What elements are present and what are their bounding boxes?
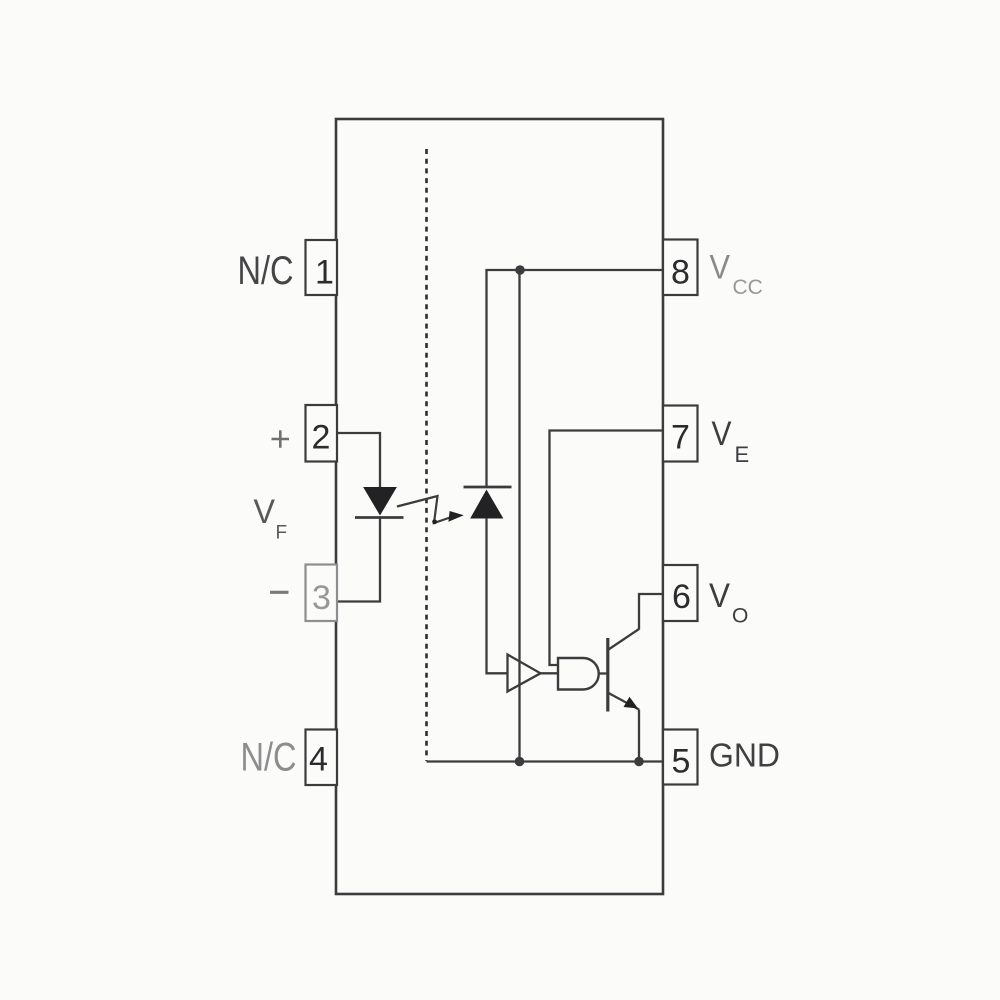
wire amplifier output to AND gate xyxy=(541,672,559,674)
svg-text:CC: CC xyxy=(733,276,763,299)
svg-text:5: 5 xyxy=(672,743,691,781)
amplifier buffer A1 xyxy=(508,655,541,692)
wire VCC rail pin8 xyxy=(487,270,664,487)
label N/C pin 1 xyxy=(238,249,294,293)
label + anode xyxy=(272,430,290,447)
svg-text:8: 8 xyxy=(671,254,690,292)
light emission arrow xyxy=(397,496,464,524)
svg-text:V: V xyxy=(254,493,276,531)
label VCC xyxy=(710,248,763,299)
LED D1 xyxy=(355,488,404,518)
label VF xyxy=(254,493,288,544)
svg-text:1: 1 xyxy=(315,254,334,292)
svg-text:V: V xyxy=(712,415,732,453)
transistor Q1 xyxy=(608,629,639,712)
IC body U1 xyxy=(336,119,663,894)
ground rail wire pin5 xyxy=(427,760,664,762)
label VE xyxy=(712,415,750,467)
label N/C pin 4 xyxy=(241,736,297,780)
pin 3 xyxy=(306,565,338,622)
wire emitter to ground rail xyxy=(638,710,640,762)
pin 8 xyxy=(663,240,698,296)
wire internal supply line xyxy=(518,270,520,762)
pin 1 xyxy=(306,240,338,295)
svg-text:3: 3 xyxy=(312,579,331,617)
pin 5 xyxy=(663,730,698,785)
wire pin6 VO to collector xyxy=(639,594,663,630)
AND gate G1 xyxy=(558,658,599,690)
pin 7 xyxy=(663,406,698,462)
node ground junction right xyxy=(634,757,644,767)
wire pin2 to LED anode xyxy=(337,433,380,489)
svg-text:2: 2 xyxy=(312,419,331,457)
svg-text:V: V xyxy=(709,577,730,615)
svg-text:N/C: N/C xyxy=(238,249,294,293)
node VCC junction xyxy=(515,265,525,275)
svg-text:6: 6 xyxy=(672,578,691,616)
label - cathode xyxy=(270,591,289,594)
wire AND gate output to transistor base xyxy=(599,672,607,674)
svg-text:GND: GND xyxy=(709,737,780,774)
label GND xyxy=(709,737,780,774)
label VO xyxy=(709,577,748,628)
photodiode D2 xyxy=(464,487,512,518)
svg-text:N/C: N/C xyxy=(241,736,297,780)
pin 2 xyxy=(306,405,338,462)
node ground junction left xyxy=(515,757,525,767)
svg-text:O: O xyxy=(732,605,748,628)
svg-text:V: V xyxy=(710,248,731,286)
svg-text:E: E xyxy=(735,442,750,467)
pin 4 xyxy=(306,730,338,786)
isolation barrier dotted line xyxy=(425,149,428,761)
svg-text:F: F xyxy=(276,523,288,544)
svg-text:4: 4 xyxy=(309,741,328,779)
wire LED cathode to pin3 xyxy=(337,518,380,602)
pin 6 xyxy=(663,565,698,621)
wire pin7 VE to AND gate input xyxy=(550,431,664,666)
wire photodiode anode to amplifier input xyxy=(487,518,508,673)
svg-text:7: 7 xyxy=(671,419,690,457)
